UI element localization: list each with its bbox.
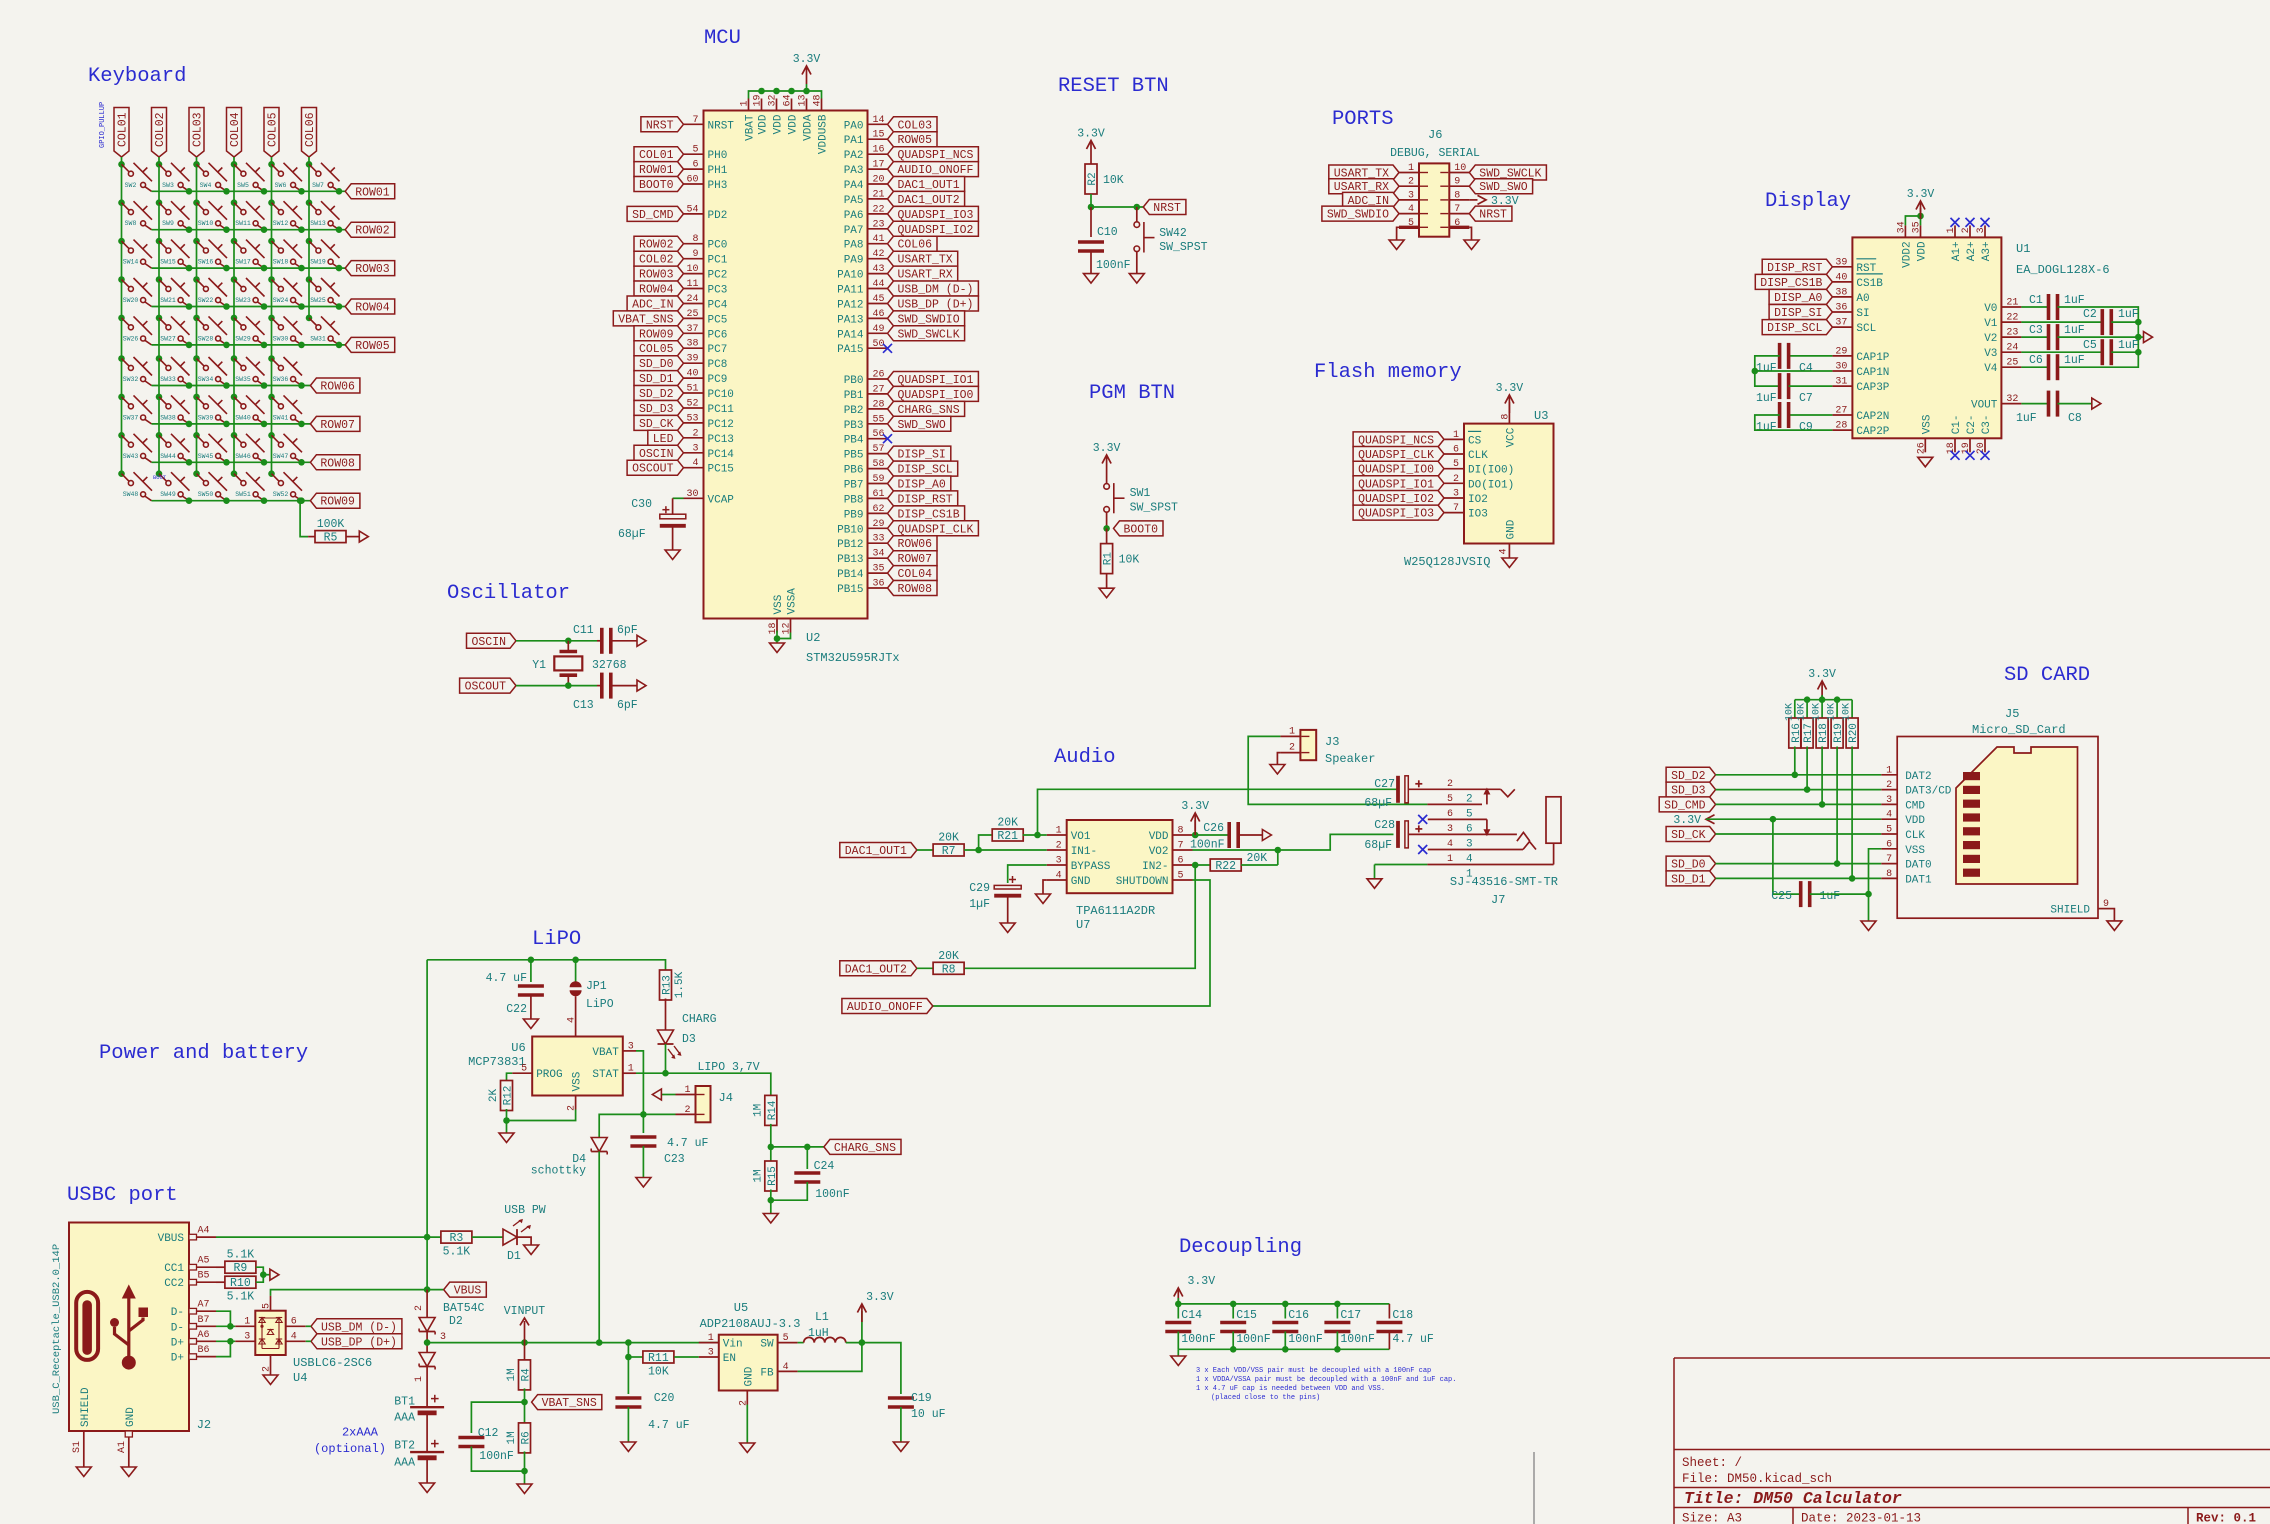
capacitor C28 (68uF) — [1398, 821, 1422, 848]
pin 1 (U4 left) — [235, 1316, 255, 1327]
svg-text:58: 58 — [873, 459, 885, 470]
svg-text:SW13: SW13 — [310, 220, 326, 227]
jack contact chevron pin4 — [1523, 842, 1536, 850]
svg-text:3.3V: 3.3V — [793, 53, 821, 66]
wire VO2 — [1193, 849, 1278, 851]
wire to NRST label — [1091, 206, 1143, 208]
capacitor C10 — [1078, 242, 1104, 251]
svg-text:Display: Display — [1765, 190, 1851, 213]
svg-text:C22: C22 — [506, 1003, 527, 1016]
svg-text:B6: B6 — [198, 1345, 210, 1356]
svg-text:C14: C14 — [1181, 1309, 1202, 1322]
junction VDD rail — [773, 88, 780, 95]
svg-text:SW23: SW23 — [235, 297, 251, 304]
svg-text:DAC1_OUT2: DAC1_OUT2 — [845, 963, 907, 976]
svg-text:LED: LED — [653, 433, 674, 446]
svg-text:VO1: VO1 — [1071, 831, 1091, 843]
wire VSS to junction — [507, 1110, 576, 1134]
resistor R17 — [1801, 718, 1815, 748]
svg-text:64: 64 — [783, 94, 794, 106]
capacitor C2 — [2102, 309, 2111, 335]
svg-text:2: 2 — [414, 1305, 425, 1311]
svg-text:5: 5 — [1408, 218, 1414, 229]
svg-text:5.1K: 5.1K — [227, 1291, 255, 1304]
svg-text:PA0: PA0 — [844, 120, 864, 132]
svg-text:Y1: Y1 — [532, 659, 546, 672]
svg-text:U6: U6 — [511, 1041, 525, 1055]
svg-text:PA3: PA3 — [844, 165, 864, 177]
svg-text:R2: R2 — [1087, 172, 1099, 185]
SD card contact pad 6 — [1963, 841, 1980, 849]
svg-text:5.1K: 5.1K — [443, 1246, 471, 1259]
net label DAC1_OUT2 (MCU PA5) — [888, 191, 965, 207]
switch SW14 — [118, 238, 152, 268]
svg-text:3: 3 — [244, 1331, 250, 1342]
resistor R8 — [933, 950, 964, 977]
svg-text:ROW04: ROW04 — [355, 302, 390, 315]
net label QUADSPI_NCS (MCU PA2) — [888, 147, 979, 163]
pin 8 DAT1 (J5) — [1881, 869, 1932, 887]
resistor R15 — [752, 1161, 779, 1191]
svg-text:5.1K: 5.1K — [227, 1249, 255, 1262]
svg-text:QUADSPI_IO3: QUADSPI_IO3 — [898, 209, 974, 222]
svg-text:USB_DP (D+): USB_DP (D+) — [321, 1336, 397, 1349]
svg-text:1: 1 — [1289, 727, 1295, 738]
jack contact chevron pin2 — [1501, 789, 1515, 797]
power 3.3V (U1) — [1907, 188, 1935, 219]
wire VBAT down — [636, 1051, 643, 1115]
switch SW30 — [268, 315, 302, 345]
pin 27 PB1 (MCU right) — [844, 384, 888, 402]
svg-text:SW24: SW24 — [273, 297, 289, 304]
net label NRST (reset) — [1143, 200, 1186, 216]
svg-text:PROG: PROG — [536, 1069, 562, 1081]
svg-text:25: 25 — [686, 309, 698, 320]
ground (U3) — [1502, 558, 1517, 568]
svg-text:SW33: SW33 — [160, 376, 176, 383]
pin 5 PH0 (MCU left) — [684, 145, 728, 163]
pin 1 VO1 (U7 left) — [1047, 826, 1091, 844]
battery BT2 — [410, 1452, 444, 1483]
junction VBAT_SNS — [521, 1399, 528, 1406]
pin 4 GND (U3 bottom) — [1498, 519, 1517, 557]
net label ROW09 — [310, 493, 360, 509]
wire C11 left lead — [597, 640, 602, 642]
svg-text:SCL: SCL — [1856, 323, 1876, 335]
open wire arrow (display bus) — [2144, 332, 2153, 343]
capacitor C3 — [2049, 324, 2058, 350]
net label ROW05 (MCU PA1) — [888, 132, 938, 148]
wire VCAP to C30 — [673, 497, 684, 499]
svg-text:ROW05: ROW05 — [355, 340, 390, 353]
svg-text:100nF: 100nF — [1340, 1333, 1375, 1346]
svg-text:2: 2 — [1961, 227, 1972, 233]
wire R15 down — [770, 1190, 772, 1214]
wire R2 to junction — [1090, 194, 1092, 207]
svg-text:SW7: SW7 — [312, 182, 324, 189]
switch SW36 — [268, 355, 302, 385]
svg-text:SW41: SW41 — [273, 414, 289, 421]
junction OSCIN / Y1 — [565, 638, 572, 645]
svg-text:4: 4 — [783, 1362, 789, 1373]
pin 32 VOUT (U1 right) — [1971, 394, 2021, 412]
svg-text:38: 38 — [1835, 287, 1847, 298]
svg-text:39: 39 — [686, 354, 698, 365]
junction NRST / SW42 — [1134, 204, 1141, 211]
switch SW41 — [268, 394, 302, 424]
net label USART_RX (MCU PA10) — [888, 266, 958, 282]
svg-text:4: 4 — [1498, 548, 1509, 554]
net label SWD_SWCLK (J6) — [1469, 165, 1546, 181]
power 3.3V (U5 output) — [857, 1291, 893, 1322]
wire SHIELD to ground — [2113, 909, 2115, 921]
svg-text:C13: C13 — [573, 699, 594, 712]
switch SW44 — [156, 432, 190, 462]
svg-text:1M: 1M — [752, 1104, 764, 1117]
net label ROW08 (MCU PB15) — [888, 581, 938, 597]
svg-text:40: 40 — [1835, 272, 1847, 283]
wire R13 to D3 — [665, 999, 667, 1031]
net label DISP_A0 (MCU PB7) — [888, 476, 951, 492]
switch SW10 — [193, 199, 227, 229]
wire U3 VCC to 3.3V — [1508, 402, 1510, 412]
svg-text:COL04: COL04 — [229, 112, 242, 147]
pin 3 EN (U5 left) — [699, 1348, 736, 1366]
pin 17 PA3 (MCU right) — [844, 160, 888, 178]
pin 23 PA7 (MCU right) — [844, 219, 888, 237]
wire J3 pin1 to jack pin5 — [1248, 736, 1427, 804]
svg-text:SW30: SW30 — [273, 335, 289, 342]
svg-text:C2: C2 — [2083, 308, 2097, 321]
svg-text:NRST: NRST — [708, 120, 735, 132]
svg-text:26: 26 — [1916, 442, 1927, 454]
junction VDD rail — [803, 88, 810, 95]
svg-text:COL03: COL03 — [898, 119, 933, 132]
svg-text:PH0: PH0 — [708, 150, 728, 162]
wire to ground (R6) — [524, 1471, 526, 1484]
svg-text:SW43: SW43 — [123, 453, 139, 460]
svg-text:DAT0: DAT0 — [1905, 860, 1931, 872]
svg-text:Keyboard: Keyboard — [88, 65, 186, 88]
switch SW48 — [118, 470, 152, 500]
wire to open arrow (CC) — [263, 1274, 270, 1276]
pin 26 VSS (U1 bottom) — [1916, 414, 1933, 454]
pin 3 (U4 left) — [235, 1331, 255, 1342]
svg-text:VDD: VDD — [1905, 815, 1925, 827]
svg-text:17: 17 — [873, 160, 885, 171]
svg-text:5: 5 — [262, 1303, 273, 1309]
pin 11 PC3 (MCU left) — [684, 279, 728, 297]
wire STAT — [636, 1072, 666, 1074]
wire C1-C6 right bus — [2058, 307, 2139, 367]
wire ROW05 — [152, 344, 346, 346]
svg-text:PA11: PA11 — [837, 285, 864, 297]
junction ROW03 / SW column 4 — [261, 265, 268, 272]
junction C22 — [528, 957, 535, 964]
svg-text:Size: A3: Size: A3 — [1682, 1512, 1742, 1524]
junction ROW01 / SW column 3 — [223, 188, 230, 195]
svg-text:PB12: PB12 — [837, 539, 863, 551]
svg-text:SD_CMD: SD_CMD — [1664, 799, 1706, 812]
svg-text:3.3V: 3.3V — [1093, 442, 1121, 455]
svg-text:J2: J2 — [197, 1418, 211, 1432]
svg-text:GND: GND — [125, 1407, 137, 1427]
svg-text:C4: C4 — [1799, 362, 1813, 375]
svg-text:1uF: 1uF — [1756, 362, 1777, 375]
svg-text:PC15: PC15 — [708, 464, 734, 476]
svg-text:32: 32 — [768, 94, 779, 106]
diode D2 (BAT54C dual schottky) — [419, 1318, 435, 1370]
svg-text:A7: A7 — [198, 1300, 210, 1311]
svg-text:30: 30 — [1835, 362, 1847, 373]
svg-text:B7: B7 — [198, 1315, 210, 1326]
svg-text:1M: 1M — [506, 1431, 518, 1444]
ground (C10) — [1084, 274, 1099, 284]
junction ROW09 / SW column 2 — [186, 497, 193, 504]
wire 3.3V to SW1 — [1106, 473, 1108, 484]
pin 36 PB15 (MCU right) — [837, 579, 887, 597]
wire SW1 to R1 — [1106, 528, 1108, 543]
svg-text:SHUTDOWN: SHUTDOWN — [1116, 876, 1169, 888]
svg-text:PA10: PA10 — [837, 270, 863, 282]
no-connect C1- — [1951, 451, 1960, 460]
svg-text:68µF: 68µF — [618, 528, 646, 541]
junction ROW01 / SW column 2 — [186, 188, 193, 195]
pin 2 (J6 left) — [1399, 177, 1428, 188]
connector J5 body — [1897, 737, 2098, 919]
svg-text:19: 19 — [753, 94, 764, 106]
junction ROW06 / SW column 2 — [186, 382, 193, 389]
wire V1 to C2 — [2021, 321, 2102, 323]
wire VO1 to C27 — [1038, 789, 1398, 835]
wire OSCOUT to C13 — [568, 685, 597, 687]
svg-text:51: 51 — [686, 384, 698, 395]
capacitor C4 — [1780, 343, 1789, 369]
svg-text:28: 28 — [1835, 421, 1847, 432]
wire J4 pin2 — [643, 1113, 675, 1115]
svg-text:D3: D3 — [682, 1033, 696, 1046]
pin 55 PB3 (MCU right) — [844, 414, 888, 432]
svg-text:68µF: 68µF — [1364, 839, 1392, 852]
svg-text:DAT2: DAT2 — [1905, 771, 1931, 783]
pin A7 D- (J2) — [171, 1300, 216, 1320]
diode D4 (schottky) — [591, 1138, 607, 1155]
connector J7 jack body — [1546, 797, 1561, 843]
ground (J5 shield) — [2107, 921, 2122, 931]
pin 3 PC14 (MCU left) — [684, 443, 735, 461]
svg-text:DI(IO0): DI(IO0) — [1468, 465, 1514, 477]
pin 15 PA1 (MCU right) — [844, 130, 888, 148]
svg-text:PA5: PA5 — [844, 195, 864, 207]
svg-text:PA13: PA13 — [837, 314, 863, 326]
svg-text:32768: 32768 — [592, 659, 627, 672]
pin 54 PD2 (MCU left) — [684, 204, 728, 222]
wire V2 to C3 — [2021, 336, 2048, 338]
svg-text:14: 14 — [873, 115, 885, 126]
svg-text:PC13: PC13 — [708, 434, 734, 446]
svg-text:4: 4 — [291, 1331, 297, 1342]
junction ROW03 / SW column 3 — [223, 265, 230, 272]
wire jack pin6 — [1428, 818, 1487, 820]
junction ROW08 / SW column 4 — [261, 459, 268, 466]
sheet divider line — [1533, 1452, 1535, 1524]
svg-text:3: 3 — [1447, 824, 1453, 835]
pin 28 PB2 (MCU right) — [844, 399, 888, 417]
junction C3 bus — [2135, 334, 2142, 341]
resistor R20 — [1846, 718, 1860, 748]
svg-text:SW45: SW45 — [198, 453, 214, 460]
wire CAP1N — [1755, 370, 1833, 372]
wire ROW07 — [152, 423, 311, 425]
svg-text:3: 3 — [1466, 838, 1473, 850]
net label DISP_RST (MCU PB8) — [888, 491, 958, 507]
svg-text:PA1: PA1 — [844, 135, 864, 147]
wire rail to R17 — [1806, 700, 1808, 720]
switch SW52 — [268, 470, 302, 500]
junction ROW05 / SW column 4 — [261, 342, 268, 349]
svg-text:SW19: SW19 — [310, 259, 326, 266]
wire C11 to open end — [611, 640, 637, 642]
svg-text:15: 15 — [873, 130, 885, 141]
net label DISP_CS1B (U1) — [1755, 274, 1832, 290]
svg-text:B5: B5 — [198, 1271, 210, 1282]
svg-text:C25: C25 — [1771, 890, 1792, 903]
svg-text:27: 27 — [873, 384, 885, 395]
capacitor C14 — [1165, 1323, 1191, 1332]
net label ROW01 (MCU PH1) — [634, 162, 684, 178]
capacitor C26 — [1229, 822, 1238, 848]
wire VSSA to VSS — [777, 633, 791, 639]
junction ROW05 / SW column 6 — [336, 342, 343, 349]
pin 3 BYPASS (U7 left) — [1047, 856, 1111, 874]
svg-text:VDD: VDD — [773, 114, 785, 134]
junction rail C16 — [1282, 1301, 1289, 1308]
switch SW35 — [231, 355, 265, 385]
svg-text:23: 23 — [2006, 328, 2018, 339]
svg-text:ROW07: ROW07 — [320, 419, 355, 432]
svg-text:STM32U595RJTx: STM32U595RJTx — [806, 651, 900, 665]
junction ROW04 / SW column 5 — [298, 303, 305, 310]
net label DISP_RST (U1) — [1762, 259, 1832, 275]
svg-text:23: 23 — [873, 219, 885, 230]
switch SW42 — [1134, 207, 1155, 274]
svg-text:1: 1 — [414, 1376, 425, 1382]
junction ROW03 / SW column 2 — [186, 265, 193, 272]
wire rail to R18 — [1821, 700, 1823, 720]
svg-text:SW42: SW42 — [1159, 227, 1187, 240]
switch SW46 — [231, 432, 265, 462]
svg-text:IO2: IO2 — [1468, 494, 1488, 506]
svg-text:CAP2P: CAP2P — [1856, 426, 1889, 438]
svg-text:EA_DOGL128X-6: EA_DOGL128X-6 — [2016, 263, 2110, 277]
resistor R14 — [752, 1095, 779, 1125]
svg-text:A1+: A1+ — [1951, 241, 1963, 261]
svg-text:SD_D0: SD_D0 — [1671, 859, 1706, 872]
pin 29 PB10 (MCU right) — [837, 519, 887, 537]
svg-text:SW46: SW46 — [235, 453, 251, 460]
pin 1 (J6 left) — [1399, 163, 1428, 174]
svg-text:6: 6 — [1453, 445, 1459, 456]
net label ROW02 (MCU PC0) — [634, 236, 684, 252]
svg-text:VO2: VO2 — [1149, 846, 1169, 858]
svg-text:NRST: NRST — [1479, 209, 1507, 222]
svg-text:3.3V: 3.3V — [1496, 382, 1524, 395]
wire C19 to ground — [900, 1407, 902, 1442]
pin B6 D+ (J2) — [171, 1345, 216, 1365]
svg-text:10K: 10K — [1103, 174, 1124, 187]
net label AUDIO_ONOFF (MCU PA3) — [888, 162, 979, 178]
svg-text:LiPO: LiPO — [586, 998, 614, 1011]
junction C2 bus — [2135, 319, 2142, 326]
pin 46 PA13 (MCU right) — [837, 309, 887, 327]
wire jack gnd hook — [1374, 865, 1376, 879]
switch SW26 — [118, 315, 152, 345]
pin 49 PA14 (MCU right) — [837, 324, 887, 342]
text + (BT2) — [431, 1440, 439, 1448]
junction ROW04 / SW column 2 — [186, 303, 193, 310]
svg-text:DISP_SCL: DISP_SCL — [1767, 322, 1822, 335]
pin 4 GND (U7 left) — [1047, 871, 1091, 889]
svg-text:NRST: NRST — [1153, 202, 1181, 215]
svg-text:C17: C17 — [1340, 1309, 1361, 1322]
svg-text:1uH: 1uH — [808, 1327, 829, 1340]
net label COL03 (MCU PA0) — [888, 117, 938, 133]
wire C3 to bus — [2058, 336, 2139, 338]
junction R15/C24 bottom — [768, 1197, 775, 1204]
wire bottom rail to ground — [1177, 1349, 1179, 1356]
svg-text:QUADSPI_IO0: QUADSPI_IO0 — [1358, 464, 1434, 477]
svg-text:8: 8 — [1178, 826, 1184, 837]
wire V0 to C1 — [2021, 306, 2048, 308]
wire OSCIN to C11 — [568, 640, 597, 642]
net label SWD_SWCLK (MCU PA14) — [888, 326, 965, 342]
net label COL02 (MCU PC1) — [634, 251, 684, 267]
svg-text:PC0: PC0 — [708, 240, 728, 252]
pin 30 CAP1N (U1) — [1832, 362, 1889, 380]
ground (J6 pin5) — [1389, 240, 1404, 250]
svg-text:4: 4 — [1886, 810, 1892, 821]
svg-text:R6: R6 — [521, 1431, 533, 1444]
no-connect PA15 — [883, 344, 892, 353]
svg-text:SW48: SW48 — [123, 491, 139, 498]
wire J6 pin6 to ground — [1469, 227, 1471, 240]
svg-text:5: 5 — [692, 145, 698, 156]
svg-text:57: 57 — [873, 444, 885, 455]
svg-text:SD_CK: SD_CK — [1671, 829, 1706, 842]
pin 2 A2+ (U1 top) — [1961, 225, 1978, 261]
svg-text:CS1B: CS1B — [1856, 278, 1883, 290]
net label QUADSPI_CLK (MCU PB10) — [888, 521, 979, 537]
resistor R12 — [488, 1081, 515, 1111]
pin 2 IN1- (U7 left) — [1047, 841, 1097, 859]
svg-text:QUADSPI_IO1: QUADSPI_IO1 — [898, 374, 974, 387]
junction ROW04 / SW column 3 — [223, 303, 230, 310]
svg-text:3: 3 — [1056, 856, 1062, 867]
wire VSS to ground — [776, 631, 778, 644]
svg-text:22: 22 — [873, 204, 885, 215]
pin 20 PA4 (MCU right) — [844, 175, 888, 193]
svg-text:6pF: 6pF — [617, 624, 638, 637]
pin 1 VBAT (MCU top) — [740, 99, 757, 141]
svg-text:1: 1 — [1453, 430, 1459, 441]
junction rail bottom C15 — [1230, 1346, 1237, 1353]
svg-text:DISP_RST: DISP_RST — [1767, 262, 1822, 275]
junction VDD 3.3V — [1192, 832, 1199, 839]
svg-text:R8: R8 — [942, 963, 956, 976]
net label USART_TX (MCU PA9) — [888, 251, 958, 267]
svg-text:31: 31 — [1835, 377, 1847, 388]
svg-text:61: 61 — [873, 489, 885, 500]
